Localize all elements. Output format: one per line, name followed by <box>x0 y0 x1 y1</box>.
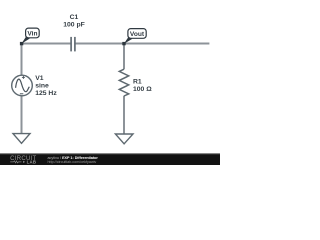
svg-text:V1: V1 <box>35 75 44 82</box>
node Vout flag pointer <box>124 37 132 44</box>
ground (left, under V1) <box>13 134 30 144</box>
svg-text:R1: R1 <box>133 79 142 86</box>
wire capacitor right plate to right end <box>75 43 209 45</box>
svg-text:Vin: Vin <box>27 30 37 37</box>
node Vout flag <box>128 29 146 39</box>
node Vin flag <box>26 28 40 38</box>
wire V1 bottom to left ground <box>21 96 23 134</box>
svg-text:http://circuitlab.com/cekfyawi: http://circuitlab.com/cekfyawiv <box>48 160 97 164</box>
voltage source V1 <box>12 75 33 96</box>
label V1 sine 125 Hz <box>35 75 57 97</box>
wire Vout node down to R1 top <box>123 44 125 70</box>
svg-text:100 pF: 100 pF <box>63 22 85 29</box>
capacitor C1 <box>71 37 75 52</box>
svg-text:Vout: Vout <box>130 31 145 38</box>
node Vin junction dot <box>20 42 23 45</box>
node Vout junction dot <box>122 42 125 45</box>
resistor R1 <box>119 69 128 96</box>
label C1 value 100 pF <box>63 14 85 29</box>
svg-text:C1: C1 <box>70 14 79 21</box>
label R1 value 100 ohm <box>133 79 152 94</box>
wire Vin node down to V1 top <box>21 44 23 76</box>
svg-text:125 Hz: 125 Hz <box>35 90 57 97</box>
svg-text:100 Ω: 100 Ω <box>133 86 152 93</box>
wire Vin node to capacitor left plate <box>22 43 71 45</box>
node Vin flag pointer <box>21 36 29 44</box>
wire R1 bottom to right ground <box>123 96 125 134</box>
ground (right, under R1) <box>115 134 133 144</box>
CircuitLab footer bar <box>0 153 220 165</box>
svg-text:sine: sine <box>35 83 49 90</box>
svg-text:LAB: LAB <box>27 159 37 164</box>
